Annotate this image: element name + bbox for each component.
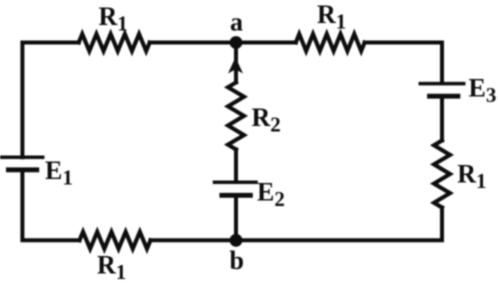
wire bottom node-b to resistor bbox=[151, 238, 237, 242]
battery E3 short plate bbox=[430, 94, 458, 99]
wire bottom-left corner to E1 bbox=[22, 172, 79, 241]
wire top-middle segment bbox=[150, 41, 296, 45]
battery E2 short plate bbox=[222, 193, 251, 198]
svg-text:a: a bbox=[230, 8, 243, 37]
node a junction dot bbox=[230, 36, 243, 49]
wire E2 to node b bbox=[234, 197, 238, 240]
svg-text:E2: E2 bbox=[257, 178, 285, 212]
svg-text:b: b bbox=[230, 246, 244, 275]
svg-text:E1: E1 bbox=[45, 156, 73, 190]
wire E3 to R1 right bbox=[440, 98, 444, 140]
svg-text:R1: R1 bbox=[99, 2, 128, 36]
battery E1 long plate bbox=[1, 155, 43, 159]
battery E2 long plate bbox=[215, 181, 257, 185]
resistor R1 bottom zigzag bbox=[80, 232, 151, 249]
resistor R1 top-left zigzag bbox=[79, 34, 150, 51]
battery E3 long plate bbox=[420, 82, 463, 86]
svg-text:R1: R1 bbox=[97, 251, 126, 285]
svg-text:R2: R2 bbox=[252, 103, 281, 137]
svg-text:R1: R1 bbox=[317, 0, 346, 34]
resistor R2 zigzag bbox=[228, 82, 244, 149]
wire top-left segment bbox=[22, 43, 78, 158]
resistor R1 right zigzag bbox=[434, 141, 450, 208]
resistor R1 top-right zigzag bbox=[296, 34, 365, 51]
wire middle branch node-a to R2 bbox=[234, 43, 238, 83]
node b junction dot bbox=[230, 234, 243, 247]
wire R2 to E2 bbox=[234, 149, 238, 180]
current arrow on middle branch bbox=[228, 57, 243, 73]
wire bottom-right corner bbox=[242, 208, 442, 241]
battery E1 short plate bbox=[8, 167, 36, 172]
svg-text:E3: E3 bbox=[469, 74, 497, 108]
svg-text:R1: R1 bbox=[457, 160, 486, 194]
wire top-right corner to E3 bbox=[365, 43, 442, 83]
